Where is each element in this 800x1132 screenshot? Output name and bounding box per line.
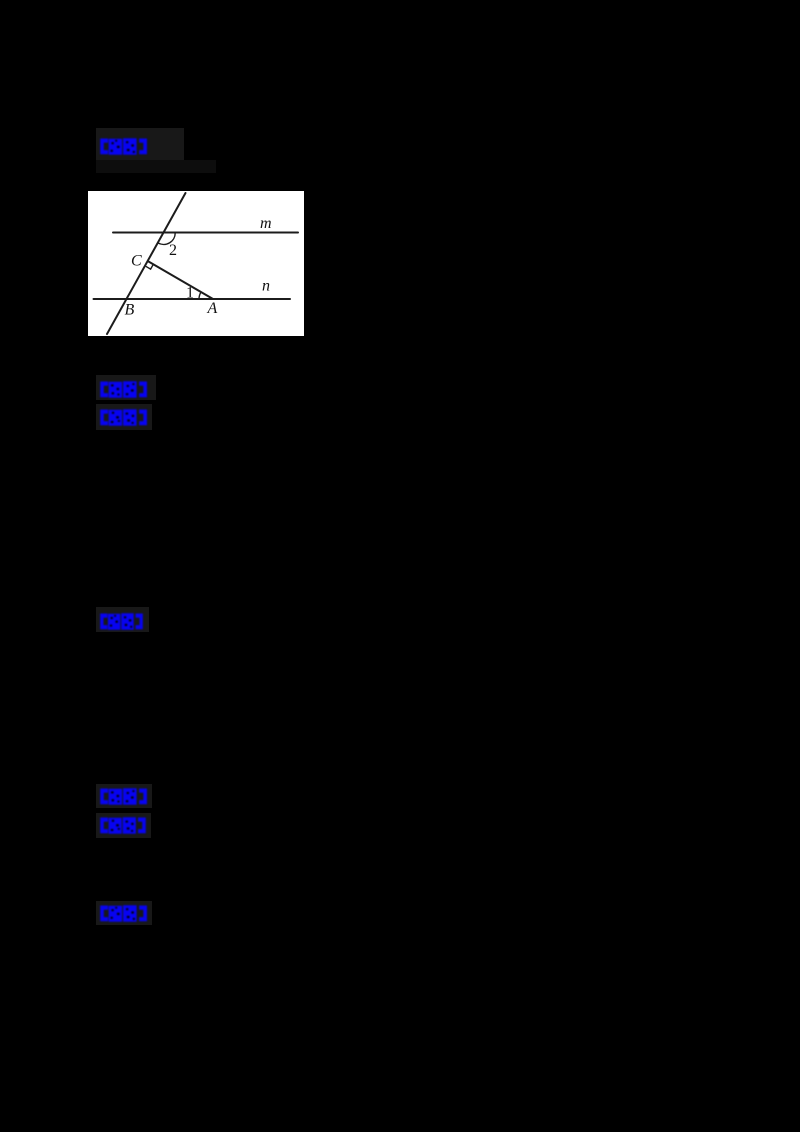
svg-text:n: n bbox=[262, 278, 270, 295]
angle 2 arc bbox=[158, 233, 175, 244]
segment CA bbox=[149, 262, 214, 300]
halo around label 5 bbox=[96, 784, 152, 808]
label 1 【分析】 blue section header bbox=[99, 138, 148, 161]
halo around label 2 bbox=[96, 375, 156, 400]
label 4 【分析】 blue section header bbox=[99, 613, 144, 636]
svg-text:A: A bbox=[207, 300, 218, 317]
geometry figure: white panel bbox=[88, 191, 304, 341]
label 2 【解答】 blue section header bbox=[99, 381, 148, 404]
label 5 【解答】 blue section header bbox=[99, 788, 148, 811]
faint artifact strip under label 1 bbox=[96, 160, 216, 173]
label 3 【点评】 blue section header bbox=[99, 409, 148, 432]
svg-text:m: m bbox=[260, 215, 272, 232]
label 6 【点评】 blue section header bbox=[99, 817, 147, 840]
label 7 【分析】 blue section header bbox=[99, 905, 148, 928]
svg-text:B: B bbox=[125, 302, 135, 319]
halo around label 6 bbox=[96, 813, 151, 838]
svg-text:C: C bbox=[131, 253, 142, 270]
line n bbox=[94, 298, 291, 300]
angle 1 arc bbox=[199, 292, 201, 299]
svg-text:1: 1 bbox=[186, 285, 194, 302]
svg-text:2: 2 bbox=[169, 242, 177, 259]
halo around label 1 bbox=[96, 128, 184, 160]
halo around label 4 bbox=[96, 607, 149, 632]
transversal line through B and C bbox=[107, 193, 186, 334]
halo around label 3 bbox=[96, 404, 152, 430]
line m bbox=[113, 232, 298, 234]
right angle mark at C bbox=[146, 264, 154, 269]
halo around label 7 bbox=[96, 901, 152, 925]
